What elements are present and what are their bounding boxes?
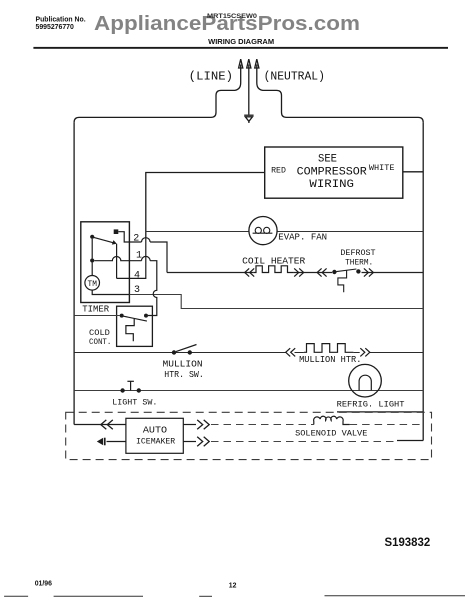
mullion heater element <box>304 344 354 353</box>
timer interior vertical <box>91 239 93 259</box>
svg-text:Publication No.: Publication No. <box>36 16 86 23</box>
svg-text:AUTO: AUTO <box>143 424 168 435</box>
chevrons coil heater right <box>294 268 304 276</box>
chevrons defrost right <box>364 268 374 276</box>
svg-text:(LINE): (LINE) <box>189 69 233 83</box>
cold control contacts <box>120 314 148 322</box>
timer box <box>81 222 130 303</box>
evap fan motor <box>249 217 277 245</box>
cabinet bottom edge right <box>337 411 423 413</box>
header rule <box>33 47 448 49</box>
timer pad wire to terminal 2 <box>118 232 141 242</box>
svg-text:WIRING DIAGRAM: WIRING DIAGRAM <box>208 37 274 46</box>
svg-text:COIL HEATER: COIL HEATER <box>242 255 306 266</box>
svg-text:EVAP. FAN: EVAP. FAN <box>278 231 327 242</box>
timer contact pad <box>114 229 119 234</box>
coil heater element <box>254 266 294 273</box>
light switch <box>120 381 141 392</box>
wire mullion run <box>74 352 423 354</box>
wire plug to icemaker <box>107 441 126 443</box>
svg-text:WHITE: WHITE <box>369 163 395 173</box>
chevrons icemaker in <box>101 420 113 429</box>
svg-text:COMPRESSOR: COMPRESSOR <box>297 166 368 178</box>
auto icemaker box <box>126 418 183 453</box>
chevrons coil heater left <box>245 268 255 276</box>
solenoid valve coil <box>314 416 350 424</box>
wire terminal 3 run <box>129 295 423 309</box>
terminal 1 hump <box>142 256 151 260</box>
timer switch arm <box>90 235 117 245</box>
cabinet top edge right segment <box>287 117 424 122</box>
svg-text:4: 4 <box>134 271 140 282</box>
svg-text:TIMER: TIMER <box>82 304 109 314</box>
dashed return wire <box>211 441 397 443</box>
wire coil heater run <box>167 272 423 274</box>
neutral prong arrow <box>255 59 287 117</box>
wire white compressor to right rail <box>403 171 423 173</box>
wire red feed to compressor <box>146 173 265 238</box>
timer arm contact wire to terminal 4 <box>117 244 142 279</box>
left rail wire <box>73 122 75 424</box>
wire terminal 2 to coil heater <box>150 242 167 273</box>
svg-text:01/96: 01/96 <box>35 581 52 588</box>
line prong arrow <box>211 59 243 117</box>
wire terminal 1 to cold control with hop <box>148 261 157 316</box>
icemaker dashed enclosure <box>66 412 432 459</box>
timer motor TM <box>85 263 100 291</box>
right rail wire <box>422 122 424 440</box>
svg-text:SEE: SEE <box>318 153 337 165</box>
svg-text:MULLION HTR.: MULLION HTR. <box>299 354 361 365</box>
svg-text:REFRIG. LIGHT: REFRIG. LIGHT <box>337 400 405 410</box>
dashed wire to solenoid <box>211 424 314 426</box>
mullion heater switch <box>172 345 197 355</box>
svg-text:S193832: S193832 <box>385 537 431 549</box>
chevrons defrost left <box>317 268 327 276</box>
cabinet top edge left segment <box>74 117 211 122</box>
wire left rail to icemaker <box>74 424 126 426</box>
compressor box U1 <box>265 147 403 198</box>
timer node B <box>90 258 94 262</box>
cold control bellows <box>126 319 134 341</box>
svg-text:2: 2 <box>133 234 139 245</box>
svg-text:CONT.: CONT. <box>89 337 111 347</box>
wire icemaker out top <box>183 424 196 426</box>
timer wire to terminal 1 with hop <box>94 257 141 261</box>
dashed wire solenoid to right rail <box>350 424 424 426</box>
wire left rail to cold control <box>74 315 120 317</box>
svg-text:(NEUTRAL): (NEUTRAL) <box>264 69 325 83</box>
ground prong arrow <box>247 59 251 114</box>
svg-text:5995276770: 5995276770 <box>36 24 74 31</box>
wire light switch run <box>74 390 423 392</box>
defrost thermostat <box>332 269 360 292</box>
ground symbol <box>244 115 253 123</box>
svg-text:RED: RED <box>271 165 286 175</box>
wire evap fan feed <box>146 231 423 233</box>
vertical terminal rail segments <box>142 238 146 279</box>
footer baseline segments <box>4 595 465 598</box>
svg-text:AppliancePartsPros.com: AppliancePartsPros.com <box>94 12 360 35</box>
publication number block <box>36 16 86 31</box>
water valve plug symbol <box>97 438 105 446</box>
svg-text:THERM.: THERM. <box>345 258 373 268</box>
chevrons icemaker out top <box>197 420 209 429</box>
solid return wire to right rail <box>397 440 423 442</box>
chevrons icemaker out bottom <box>197 437 209 446</box>
svg-text:ICEMAKER: ICEMAKER <box>136 436 175 446</box>
svg-text:SOLENOID VALVE: SOLENOID VALVE <box>295 429 367 439</box>
chevrons mullion left <box>286 348 296 356</box>
timer motor wire to terminal 3 <box>92 290 129 294</box>
wire icemaker out bottom <box>183 441 196 443</box>
refrigerator light lamp <box>349 364 382 397</box>
svg-text:WIRING: WIRING <box>309 179 354 191</box>
svg-text:LIGHT SW.: LIGHT SW. <box>112 398 157 408</box>
cold control box <box>117 306 153 346</box>
svg-text:HTR. SW.: HTR. SW. <box>164 369 204 380</box>
chevrons mullion right <box>360 348 370 356</box>
svg-text:12: 12 <box>229 583 237 590</box>
svg-text:TM: TM <box>88 280 98 289</box>
terminal 2 hump <box>142 238 151 242</box>
